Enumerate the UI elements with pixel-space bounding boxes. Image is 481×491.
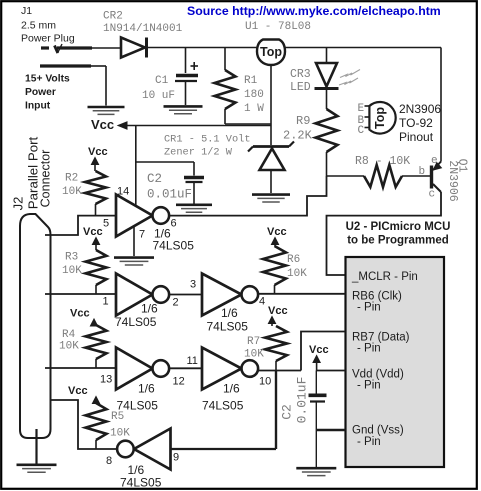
- svg-text:Connector: Connector: [39, 150, 53, 208]
- svg-text:6: 6: [171, 218, 177, 230]
- svg-text:Power: Power: [25, 87, 56, 98]
- svg-text:15+ Volts: 15+ Volts: [25, 74, 70, 85]
- svg-text:E: E: [358, 103, 365, 115]
- svg-text:to be Programmed: to be Programmed: [347, 235, 449, 247]
- svg-text:10K: 10K: [62, 186, 82, 198]
- svg-text:10K: 10K: [244, 349, 264, 361]
- svg-text:Vcc: Vcc: [268, 305, 288, 317]
- svg-text:CR1 - 5.1 Volt: CR1 - 5.1 Volt: [164, 134, 251, 146]
- svg-text:74LS05: 74LS05: [117, 399, 159, 413]
- svg-text:5: 5: [103, 218, 109, 230]
- svg-text:Input: Input: [25, 101, 51, 112]
- svg-text:Source http://www.myke.com/elc: Source http://www.myke.com/elcheapo.htm: [187, 4, 441, 18]
- svg-text:74LS05: 74LS05: [202, 399, 244, 413]
- svg-text:10: 10: [259, 376, 271, 388]
- svg-text:3: 3: [190, 279, 196, 291]
- svg-text:74LS05: 74LS05: [115, 315, 157, 329]
- svg-text:7: 7: [139, 229, 145, 241]
- svg-text:c: c: [429, 189, 436, 201]
- svg-text:14: 14: [117, 186, 129, 198]
- svg-text:R8 - 10K: R8 - 10K: [355, 155, 410, 168]
- svg-text:Vcc: Vcc: [267, 226, 287, 238]
- svg-text:2N3906: 2N3906: [446, 160, 459, 202]
- svg-text:1/6: 1/6: [223, 382, 240, 396]
- svg-text:Pinout: Pinout: [399, 130, 434, 144]
- svg-text:Zener 1/2 W: Zener 1/2 W: [164, 147, 233, 159]
- svg-text:e: e: [431, 155, 438, 167]
- svg-text:13: 13: [100, 374, 112, 386]
- svg-text:R7: R7: [247, 336, 260, 348]
- svg-text:- Pin: - Pin: [357, 302, 381, 314]
- svg-text:11: 11: [187, 355, 198, 367]
- svg-text:4: 4: [259, 296, 265, 308]
- svg-text:1/6: 1/6: [138, 382, 155, 396]
- svg-text:U2 - PICmicro MCU: U2 - PICmicro MCU: [346, 221, 451, 233]
- svg-text:- Pin: - Pin: [357, 343, 381, 355]
- svg-text:74LS05: 74LS05: [207, 320, 249, 334]
- svg-text:LED: LED: [290, 81, 311, 94]
- svg-text:0.01uF: 0.01uF: [147, 188, 192, 202]
- svg-text:R1: R1: [244, 75, 258, 87]
- svg-text:CR3: CR3: [290, 68, 311, 81]
- svg-text:1/6: 1/6: [141, 302, 158, 316]
- svg-text:R4: R4: [62, 329, 76, 341]
- svg-text:CR2: CR2: [103, 11, 123, 23]
- svg-text:10 uF: 10 uF: [142, 90, 175, 102]
- svg-text:74LS05: 74LS05: [153, 239, 195, 253]
- svg-text:- Pin: - Pin: [357, 380, 381, 392]
- svg-text:_MCLR - Pin: _MCLR - Pin: [351, 271, 418, 283]
- svg-text:2N3906: 2N3906: [399, 102, 441, 116]
- svg-text:Vcc: Vcc: [91, 117, 114, 132]
- svg-text:b: b: [419, 166, 426, 178]
- svg-text:180: 180: [244, 89, 264, 101]
- svg-text:10K: 10K: [287, 268, 307, 280]
- svg-text:1: 1: [103, 296, 109, 308]
- svg-text:C2: C2: [280, 404, 295, 420]
- svg-text:Top: Top: [260, 45, 282, 59]
- svg-text:74LS05: 74LS05: [120, 476, 162, 490]
- svg-text:Top: Top: [373, 107, 387, 129]
- svg-text:Vcc: Vcc: [309, 344, 329, 356]
- svg-text:10K: 10K: [110, 428, 130, 440]
- svg-text:Vcc: Vcc: [83, 226, 103, 238]
- svg-text:U1 - 78L08: U1 - 78L08: [245, 21, 311, 33]
- svg-text:1/6: 1/6: [221, 306, 238, 320]
- svg-text:0.01uF: 0.01uF: [295, 377, 310, 424]
- svg-text:2.5 mm: 2.5 mm: [21, 20, 56, 32]
- svg-text:J1: J1: [21, 5, 32, 17]
- svg-text:J2: J2: [11, 197, 26, 211]
- svg-text:Vcc: Vcc: [88, 146, 108, 158]
- svg-text:10K: 10K: [59, 341, 79, 353]
- svg-text:R3: R3: [65, 252, 78, 264]
- svg-text:Power Plug: Power Plug: [21, 33, 75, 45]
- svg-text:1 W: 1 W: [244, 103, 264, 115]
- svg-text:2: 2: [173, 297, 179, 309]
- svg-text:1N914/1N4001: 1N914/1N4001: [103, 23, 183, 35]
- svg-text:Vcc: Vcc: [70, 308, 90, 320]
- svg-text:C1: C1: [155, 75, 169, 87]
- svg-text:R5: R5: [111, 411, 124, 423]
- svg-text:12: 12: [173, 376, 185, 388]
- svg-text:- Pin: - Pin: [357, 436, 381, 448]
- svg-text:R6: R6: [287, 254, 300, 266]
- svg-text:R2: R2: [65, 173, 78, 185]
- svg-text:C: C: [358, 125, 365, 137]
- svg-text:10K: 10K: [62, 265, 82, 277]
- svg-text:8: 8: [106, 455, 112, 467]
- svg-text:Gnd (Vss): Gnd (Vss): [352, 425, 404, 437]
- svg-text:TO-92: TO-92: [399, 116, 433, 130]
- svg-text:C2: C2: [147, 172, 162, 186]
- svg-text:2.2K: 2.2K: [283, 129, 313, 143]
- svg-text:9: 9: [173, 452, 179, 464]
- svg-text:Vcc: Vcc: [68, 385, 88, 397]
- svg-text:R9: R9: [296, 114, 310, 128]
